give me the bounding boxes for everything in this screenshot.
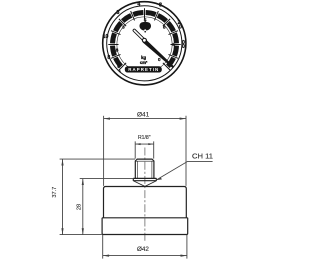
svg-text:Ø41: Ø41 xyxy=(137,111,150,118)
dimension texts xyxy=(52,111,213,253)
CH11 leader xyxy=(156,161,213,180)
svg-text:0: 0 xyxy=(182,44,185,50)
svg-text:8: 8 xyxy=(116,47,119,53)
arrows dia41 xyxy=(104,118,110,120)
gauge scale ring arc xyxy=(113,13,177,67)
gauge inner scale numbers xyxy=(116,18,176,63)
gauge brand bar xyxy=(125,66,162,72)
arrow CH11 leader xyxy=(156,178,162,181)
svg-text:5: 5 xyxy=(172,42,175,48)
ext line rim bottom left xyxy=(60,234,102,236)
stem threaded fitting R1/8 xyxy=(135,159,154,178)
svg-text:cm²: cm² xyxy=(140,60,148,65)
gauge inner scale circle xyxy=(117,17,172,72)
gauge tick marks xyxy=(108,8,180,70)
gauge dial face circle xyxy=(107,6,182,81)
dim line 28 xyxy=(82,179,84,235)
gauge outer bezel circle xyxy=(103,2,186,85)
ext line dia41 right xyxy=(185,116,187,186)
gauge outer scale numbers xyxy=(103,1,185,70)
arrows dia42 xyxy=(103,255,109,257)
gauge logo crest xyxy=(139,20,151,32)
hex nut CH11 xyxy=(133,178,156,181)
arrows R1/8 xyxy=(135,143,140,145)
dim line 37.7 xyxy=(62,159,64,235)
ext line dia41 left xyxy=(103,116,105,186)
svg-text:10: 10 xyxy=(103,34,109,40)
stem chamfer line xyxy=(135,160,154,162)
dim line R1/8 xyxy=(135,143,154,145)
svg-text:37.7: 37.7 xyxy=(52,187,58,198)
svg-text:CH 11: CH 11 xyxy=(192,151,213,160)
svg-text:R1/8": R1/8" xyxy=(138,135,151,141)
arrows 37.7 xyxy=(61,159,63,165)
svg-text:8: 8 xyxy=(159,2,162,8)
svg-text:8: 8 xyxy=(163,24,166,30)
gauge stop pin xyxy=(119,70,121,72)
svg-text:Ø42: Ø42 xyxy=(137,246,149,253)
ext lines dia42 xyxy=(103,235,187,259)
ext line hex top left xyxy=(80,178,133,180)
svg-text:8: 8 xyxy=(107,55,110,61)
ext line stem top left xyxy=(60,158,135,160)
svg-text:0: 0 xyxy=(117,64,120,70)
needle tail counterweight xyxy=(134,30,144,40)
ext lines R1/8 xyxy=(135,141,154,158)
arrowheads xyxy=(61,118,186,257)
dim line dia41 xyxy=(104,118,186,120)
svg-text:0: 0 xyxy=(158,57,161,63)
svg-text:4: 4 xyxy=(137,1,140,7)
dim line dia42 xyxy=(103,255,187,257)
svg-text:RAPRETIN: RAPRETIN xyxy=(128,67,158,72)
gauge case body xyxy=(104,187,187,218)
needle hub xyxy=(142,38,146,42)
arrows 28 xyxy=(82,179,84,185)
centerline xyxy=(144,148,146,243)
needle pointer xyxy=(143,40,173,67)
svg-text:3: 3 xyxy=(122,25,125,31)
gauge units text kg/cm2 xyxy=(140,55,148,65)
svg-text:8: 8 xyxy=(116,10,119,16)
stem thread root lines xyxy=(137,161,152,178)
hex chamfer V lines xyxy=(134,181,157,187)
case front rim xyxy=(102,218,188,235)
svg-text:0: 0 xyxy=(179,24,182,30)
svg-text:28: 28 xyxy=(77,204,83,210)
